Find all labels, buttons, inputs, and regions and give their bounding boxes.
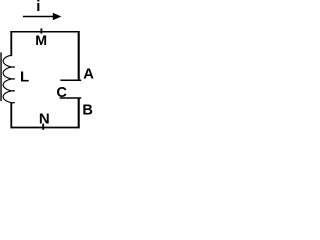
node M tick bbox=[40, 28, 42, 33]
inductor L1 return-wire bar bbox=[0, 52, 2, 101]
wire right lower bbox=[78, 98, 80, 128]
wire left upper bbox=[10, 31, 12, 56]
svg-text:B: B bbox=[82, 102, 93, 118]
current direction arrow bbox=[23, 13, 62, 21]
capacitor C1 bottom plate bbox=[60, 97, 82, 99]
node N tick bbox=[42, 124, 44, 130]
capacitor C1 top plate bbox=[60, 79, 81, 81]
svg-text:A: A bbox=[83, 67, 94, 83]
svg-text:C: C bbox=[56, 85, 67, 101]
wire right upper bbox=[78, 31, 80, 80]
svg-text:M: M bbox=[35, 33, 47, 49]
svg-text:L: L bbox=[20, 69, 29, 86]
svg-text:i: i bbox=[36, 0, 40, 15]
wire bottom bbox=[11, 127, 80, 129]
svg-text:N: N bbox=[39, 110, 50, 127]
inductor L1 coil bbox=[3, 55, 14, 103]
wire top bbox=[10, 31, 79, 33]
wire left lower bbox=[10, 102, 12, 128]
